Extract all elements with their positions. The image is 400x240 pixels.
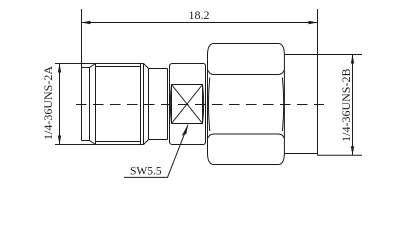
arrowhead left dim bottom: [58, 136, 61, 145]
leader line SW5.5: [124, 125, 188, 177]
wire: right face + 18.2 extension line: [317, 9, 319, 155]
arrowhead right dim bottom: [351, 146, 354, 155]
connector A front tube top edge: [82, 67, 90, 69]
svg-text:SW5.5: SW5.5: [130, 166, 162, 178]
hex nut middle flat right arc: [282, 78, 283, 132]
flat area left chamfer arc: [170, 85, 171, 124]
connector A rear chamfer end line: [148, 69, 150, 140]
connector A chamfer diagonal top: [90, 64, 96, 68]
arrowhead 18.2 left: [82, 21, 91, 24]
hex nut outline: [208, 44, 285, 165]
connector A body end line: [143, 64, 145, 145]
left dimension line 1/4-36UNS-2A: [59, 64, 61, 145]
extension line bottom-left: [55, 144, 96, 146]
connector A chamfer shoulder line: [89, 68, 91, 141]
right dimension line 1/4-36UNS-2B: [352, 55, 354, 156]
svg-text:1/4-36UNS-2B: 1/4-36UNS-2B: [339, 69, 353, 142]
connector A rear chamfer diagonal bottom: [144, 140, 149, 145]
coupling nut barrel bottom edge: [284, 153, 317, 155]
hex section SW5.5 right end line: [205, 65, 207, 143]
arrowhead left dim top: [58, 64, 61, 73]
connector A threaded body bottom edge (major dia): [96, 144, 144, 146]
hex section SW5.5 bottom edge with corner radii: [170, 142, 206, 145]
flat (wrench) area outline: [172, 85, 203, 124]
extension line top-left: [55, 63, 96, 65]
connector A thread start line: [95, 64, 97, 145]
arrowhead SW5.5 leader: [182, 124, 188, 135]
hex nut upper flat division line: [208, 71, 283, 75]
hex section SW5.5 top edge with corner radii: [170, 64, 206, 67]
hex nut lower flat division line: [208, 134, 283, 138]
connector A front tube bottom edge: [82, 140, 90, 142]
svg-text:1/4-36UNS-2A: 1/4-36UNS-2A: [41, 66, 55, 140]
connector A thread runout line: [140, 64, 142, 145]
svg-text:18.2: 18.2: [189, 8, 210, 22]
connector A rear chamfer diagonal top: [144, 64, 149, 69]
dimension line 18.2: [82, 22, 318, 24]
connector A thread minor line bottom: [96, 141, 141, 143]
flat area diagonal 2: [172, 85, 203, 124]
groove top edge: [149, 68, 168, 70]
arrowhead right dim top: [351, 55, 354, 64]
extension line top-right: [318, 54, 363, 56]
hex section SW5.5 left edge: [169, 65, 171, 143]
connector A thread minor line top: [96, 66, 141, 68]
extension line bottom-right: [318, 154, 363, 156]
arrowhead 18.2 right: [309, 21, 318, 24]
connector A chamfer diagonal bottom: [90, 141, 96, 145]
wire: left face of connector A + 18.2 extension line: [81, 9, 83, 141]
coupling nut barrel top edge: [284, 54, 317, 56]
groove end line: [167, 69, 169, 140]
flat area right chamfer arc: [203, 85, 204, 124]
flat area diagonal 1: [172, 85, 203, 124]
groove bottom edge: [149, 139, 168, 141]
centerline (dashed axis): [76, 104, 324, 106]
hex nut middle flat left arc: [209, 78, 210, 132]
connector A threaded body top edge (major dia): [96, 63, 144, 65]
